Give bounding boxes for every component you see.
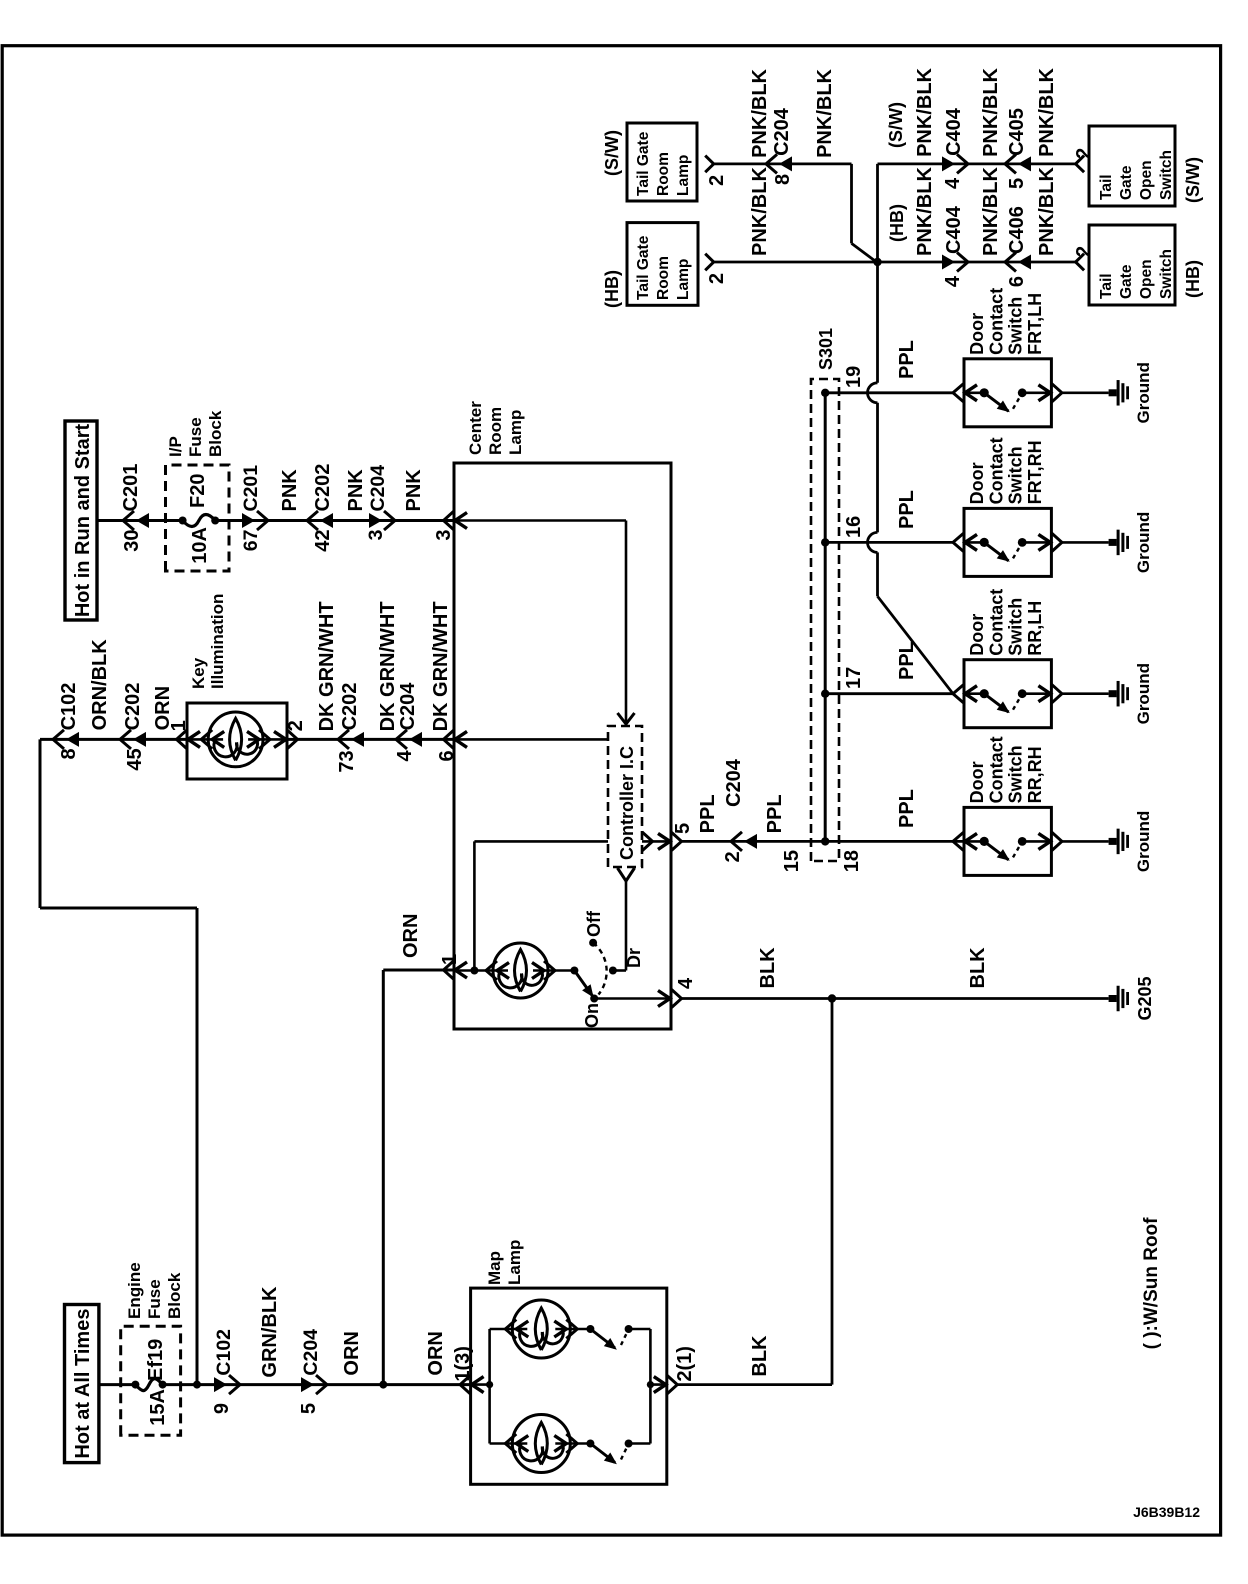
door contact switch RR,LH box: [964, 660, 1051, 728]
map lamp box: [471, 1288, 667, 1484]
ground symbol (FRT,RH): [1109, 539, 1117, 546]
svg-text:PNK/BLK: PNK/BLK: [814, 68, 836, 157]
wire: FRT,RH column: [825, 541, 953, 544]
svg-text:F20: F20: [187, 474, 209, 508]
svg-text:J6B39B12: J6B39B12: [1133, 1504, 1200, 1520]
I/P fuse block dashed box: [166, 465, 230, 571]
lamp switch lever (to On): [574, 971, 592, 996]
svg-text:Room: Room: [655, 256, 672, 300]
door contact switch RR,RH internals: [953, 832, 964, 851]
S/W open switch entry chevron: [1076, 156, 1085, 173]
svg-text:Block: Block: [206, 410, 225, 457]
svg-text:2: 2: [1073, 148, 1095, 159]
svg-text:C201: C201: [240, 465, 262, 512]
connector 4 / C404 (S/W): [957, 154, 968, 173]
svg-text:4: 4: [675, 977, 697, 989]
map lamp 1 symbol: [512, 1300, 570, 1358]
svg-text:Switch: Switch: [1006, 598, 1026, 656]
junction dot HB/trunk: [873, 258, 881, 266]
wire RR,LH switch to ground: [1062, 692, 1109, 695]
wire: S/W drop upper: [714, 163, 852, 166]
svg-text:10A: 10A: [189, 527, 211, 564]
door contact switch FRT,LH internals: [953, 383, 964, 402]
connector 30 / C201: [123, 511, 134, 530]
svg-text:30: 30: [121, 530, 143, 552]
svg-text:(S/W): (S/W): [886, 102, 906, 148]
svg-text:Door: Door: [967, 462, 987, 504]
svg-text:DK GRN/WHT: DK GRN/WHT: [316, 601, 338, 731]
wire: key illumination branch top run: [39, 739, 42, 908]
S301 dashed box: [811, 379, 839, 861]
wire: key bus below box: [287, 738, 454, 741]
map lamp 1 switch: [586, 1325, 594, 1333]
key illumination pin2 exit: [287, 730, 298, 749]
svg-text:PNK/BLK: PNK/BLK: [1036, 67, 1058, 156]
svg-text:RR,LH: RR,LH: [1025, 601, 1045, 656]
tail gate open switch (HB) box: [1089, 225, 1175, 305]
map lamp merge wire: [649, 1329, 652, 1444]
svg-text:PPL: PPL: [896, 641, 918, 680]
engine fuse block dashed box: [121, 1326, 181, 1435]
wire RR,RH switch to ground: [1062, 840, 1109, 843]
connector 42 / C202: [307, 511, 318, 530]
key illumination lamp: [187, 738, 223, 741]
wire FRT,LH switch to ground: [1062, 392, 1109, 395]
svg-text:Switch: Switch: [1006, 297, 1026, 355]
wire: pin4 BLK down to ground: [682, 997, 1109, 1000]
wire: branch drop x=676: [40, 907, 197, 910]
svg-text:FRT,LH: FRT,LH: [1025, 293, 1045, 355]
ground symbol (FRT,LH): [1109, 389, 1117, 396]
svg-text:C204: C204: [397, 682, 419, 731]
svg-text:PPL: PPL: [697, 794, 719, 833]
svg-text:PNK/BLK: PNK/BLK: [914, 67, 936, 156]
door contact switch FRT,RH internals: [953, 533, 964, 552]
S301 splice bus: [824, 393, 827, 842]
connector 9 / C102: [229, 1375, 240, 1394]
svg-text:19: 19: [843, 366, 865, 388]
svg-text:PPL: PPL: [896, 789, 918, 828]
map lamp 2 symbol: [512, 1415, 570, 1473]
svg-text:PNK/BLK: PNK/BLK: [980, 167, 1002, 256]
svg-text:5: 5: [1006, 178, 1028, 189]
wire: S/W jog to HB wire: [850, 164, 853, 244]
fuse F20 10A: [179, 517, 187, 525]
controller I.C dashed box: [608, 726, 642, 867]
svg-text:2: 2: [285, 720, 307, 731]
svg-text:18: 18: [841, 850, 863, 872]
svg-text:C204: C204: [771, 107, 793, 156]
svg-text:PNK: PNK: [345, 469, 367, 512]
pin 3 entry into Center Room Lamp: [444, 511, 455, 530]
svg-text:Off: Off: [584, 910, 604, 937]
svg-text:ORN: ORN: [400, 914, 422, 958]
wire: pin3 internal feed: [454, 519, 626, 522]
svg-text:Engine: Engine: [125, 1262, 144, 1319]
svg-text:C404: C404: [943, 107, 965, 156]
svg-text:DK GRN/WHT: DK GRN/WHT: [430, 601, 452, 731]
svg-text:PNK/BLK: PNK/BLK: [914, 167, 936, 256]
wire: ORN branch to center room lamp: [382, 970, 385, 1385]
svg-text:2: 2: [706, 273, 728, 284]
svg-text:BLK: BLK: [967, 947, 989, 989]
svg-text:C102: C102: [213, 1329, 235, 1376]
fuse Ef19 15A: [131, 1381, 139, 1389]
svg-text:4: 4: [394, 750, 416, 762]
center room lamp pin 1 entry: [444, 961, 455, 980]
svg-text:( ):W/Sun Roof: ( ):W/Sun Roof: [1141, 1217, 1162, 1350]
svg-text:9: 9: [211, 1403, 233, 1414]
connector 4 / C404 (HB): [957, 253, 968, 272]
pin 4 exit: [671, 989, 682, 1008]
tail gate open switch (S/W) box: [1089, 126, 1175, 206]
svg-text:C406: C406: [1006, 206, 1028, 254]
Off contact dot: [589, 939, 597, 947]
map lamp 1 wire: [490, 1328, 528, 1331]
svg-text:Hot in Run and Start: Hot in Run and Start: [72, 424, 94, 618]
svg-text:On: On: [582, 1003, 602, 1028]
svg-text:ORN: ORN: [341, 1331, 363, 1375]
door contact switch RR,LH internals: [953, 684, 964, 703]
power box: Hot in Run and Start: [65, 421, 97, 620]
svg-text:C201: C201: [120, 464, 142, 512]
S/W lamp pin2 chevron: [705, 156, 714, 173]
chevron at controller bottom edge (pin5): [642, 832, 653, 851]
pin 5 exit: [671, 832, 682, 851]
map lamp 2 switch: [586, 1440, 594, 1448]
svg-text:Center: Center: [466, 401, 485, 455]
connector 8 / C102: [53, 730, 64, 749]
door contact switch RR,RH box: [964, 807, 1051, 875]
svg-text:Block: Block: [165, 1272, 184, 1319]
svg-text:Open: Open: [1138, 160, 1155, 200]
svg-text:Controller I.C: Controller I.C: [617, 746, 637, 860]
svg-text:Contact: Contact: [986, 589, 1006, 656]
svg-text:Lamp: Lamp: [506, 410, 525, 455]
svg-text:Lamp: Lamp: [675, 155, 692, 196]
svg-text:67: 67: [240, 530, 262, 552]
connector 5 / C405 (S/W): [1005, 154, 1016, 173]
svg-text:Tail: Tail: [1098, 174, 1115, 200]
svg-text:DK GRN/WHT: DK GRN/WHT: [377, 601, 399, 731]
svg-text:Gate: Gate: [1118, 165, 1135, 200]
svg-text:Ef19: Ef19: [145, 1339, 167, 1381]
svg-text:Door: Door: [967, 313, 987, 355]
junction dot at bus C y=197: [193, 1381, 201, 1389]
svg-text:ORN: ORN: [425, 1331, 447, 1375]
svg-text:Switch: Switch: [1158, 150, 1175, 200]
center room lamp wire: [454, 969, 508, 972]
wire: HB drop: [714, 261, 1076, 264]
svg-text:Gate: Gate: [1118, 264, 1135, 299]
svg-text:Key: Key: [189, 657, 208, 689]
svg-text:Fuse: Fuse: [186, 417, 205, 457]
svg-text:15: 15: [781, 850, 803, 872]
svg-text:Lamp: Lamp: [675, 259, 692, 300]
svg-text:PNK: PNK: [403, 469, 425, 512]
svg-text:Contact: Contact: [986, 437, 1006, 504]
svg-text:45: 45: [124, 748, 146, 770]
door contact switch FRT,RH box: [964, 508, 1051, 576]
svg-text:Lamp: Lamp: [505, 1240, 524, 1285]
svg-text:4: 4: [942, 275, 964, 287]
svg-text:PPL: PPL: [764, 794, 786, 833]
svg-text:2: 2: [1073, 246, 1095, 257]
connector 73 / C202: [338, 730, 349, 749]
svg-text:Map: Map: [485, 1251, 504, 1285]
svg-text:Room: Room: [655, 152, 672, 196]
wire: pin4 BLK inside box: [594, 997, 671, 1000]
key illumination pin1 entry: [177, 730, 188, 749]
svg-text:PPL: PPL: [896, 490, 918, 529]
svg-text:C202: C202: [122, 683, 144, 731]
svg-text:Open: Open: [1138, 259, 1155, 299]
svg-text:Door: Door: [967, 614, 987, 656]
svg-text:Switch: Switch: [1158, 249, 1175, 299]
connector 45 / C202: [120, 730, 131, 749]
svg-text:2: 2: [722, 851, 744, 862]
svg-text:(HB): (HB): [887, 204, 907, 242]
svg-text:8: 8: [58, 748, 80, 759]
svg-text:PNK/BLK: PNK/BLK: [749, 167, 771, 256]
svg-text:5: 5: [672, 823, 694, 834]
On contact dot: [590, 995, 598, 1003]
lamp switch common dot: [570, 967, 578, 975]
svg-text:Ground: Ground: [1134, 362, 1153, 423]
svg-text:G205: G205: [1135, 976, 1155, 1020]
map lamp pin 2(1) exit: [667, 1375, 678, 1394]
wire: PPL pin5 to S301 and RR,RH switch: [682, 840, 965, 843]
svg-text:Tail: Tail: [1098, 273, 1115, 299]
connector 8 / C204 (S/W): [766, 154, 777, 173]
svg-text:BLK: BLK: [757, 947, 779, 989]
svg-text:16: 16: [843, 516, 865, 538]
wire: map lamp BLK return: [677, 1383, 832, 1386]
svg-text:4: 4: [942, 177, 964, 189]
map lamp junction dots: [486, 1381, 493, 1388]
svg-text:Ground: Ground: [1134, 811, 1153, 872]
wire: pin6 internal feed: [454, 738, 608, 741]
door contact switch FRT,LH box: [964, 359, 1051, 427]
wire: S/W drop lower: [878, 163, 1076, 166]
svg-text:Tail Gate: Tail Gate: [635, 131, 652, 196]
svg-text:PNK/BLK: PNK/BLK: [980, 67, 1002, 156]
svg-text:Hot at All Times: Hot at All Times: [72, 1309, 94, 1459]
S301 dots: [821, 837, 829, 845]
wire FRT,RH switch to ground: [1062, 541, 1109, 544]
svg-text:C404: C404: [943, 205, 965, 254]
svg-text:3: 3: [433, 530, 455, 541]
ground G205 symbol: [1109, 995, 1117, 1002]
wire: RR,LH column: [825, 692, 953, 695]
svg-text:PNK/BLK: PNK/BLK: [749, 68, 771, 157]
tail gate room lamp (HB) box: [627, 223, 698, 306]
svg-text:C405: C405: [1006, 108, 1028, 156]
svg-text:Tail Gate: Tail Gate: [635, 235, 652, 300]
ground symbol (RR,LH): [1109, 690, 1117, 697]
svg-text:2: 2: [706, 175, 728, 186]
svg-text:BLK: BLK: [749, 1335, 771, 1377]
svg-text:FRT,RH: FRT,RH: [1025, 440, 1045, 504]
wire: trunk horizontal: [876, 552, 879, 596]
svg-text:C204: C204: [300, 1329, 322, 1376]
svg-text:(S/W): (S/W): [602, 130, 622, 176]
connector 4 / C204 (key bus): [396, 730, 407, 749]
HB open switch entry chevron: [1076, 254, 1085, 271]
svg-text:Ground: Ground: [1134, 663, 1153, 724]
svg-text:3: 3: [365, 529, 387, 540]
HB lamp pin2 chevron: [705, 254, 714, 271]
connector 5 / C204: [316, 1375, 327, 1394]
junction dot BLK: [828, 994, 836, 1002]
svg-text:I/P: I/P: [166, 436, 185, 457]
wire: Hot at All Times bus: [99, 1383, 135, 1386]
svg-text:S301: S301: [816, 328, 836, 370]
junction dot lamp feed: [470, 967, 478, 975]
map lamp pin 1(3) entry: [460, 1375, 471, 1394]
svg-text:1: 1: [439, 954, 461, 965]
chevron at controller left edge: [618, 868, 635, 881]
center room lamp box: [454, 463, 671, 1029]
connector 3 / C204: [384, 511, 395, 530]
svg-text:Illumination: Illumination: [208, 594, 227, 689]
svg-text:GRN/BLK: GRN/BLK: [259, 1286, 281, 1378]
svg-text:Door: Door: [967, 761, 987, 803]
svg-text:RR,RH: RR,RH: [1025, 746, 1045, 803]
wire: controller to lamp link: [474, 840, 608, 843]
svg-text:PNK: PNK: [279, 469, 301, 512]
svg-text:(HB): (HB): [1183, 260, 1203, 298]
svg-text:ORN/BLK: ORN/BLK: [89, 639, 111, 731]
svg-text:C202: C202: [312, 464, 334, 512]
connector 6 / C406 (HB): [1005, 253, 1016, 272]
ground symbol (RR,RH): [1109, 838, 1117, 845]
dashed throw arc Off-Dr-On: [593, 943, 607, 995]
svg-text:6: 6: [1006, 276, 1028, 287]
svg-text:2(1): 2(1): [674, 1346, 696, 1382]
svg-text:C204: C204: [367, 465, 389, 512]
map lamp 2 wire: [490, 1442, 528, 1445]
svg-text:C202: C202: [339, 683, 361, 731]
svg-text:Room: Room: [486, 407, 505, 455]
svg-text:73: 73: [336, 750, 358, 772]
svg-text:Contact: Contact: [986, 288, 1006, 355]
wire: tap from Hot at All Times bus y=197: [196, 908, 199, 1385]
svg-text:5: 5: [298, 1403, 320, 1414]
junction dot ORN branch: [379, 1381, 387, 1389]
wire: trunk diagonal to RR,LH: [878, 596, 954, 693]
connector 67 / C201: [257, 511, 268, 530]
svg-text:(HB): (HB): [602, 270, 622, 308]
key illumination box: [187, 703, 287, 779]
svg-text:42: 42: [312, 530, 334, 552]
svg-text:8: 8: [772, 174, 794, 185]
svg-text:(S/W): (S/W): [1183, 157, 1203, 203]
svg-text:17: 17: [843, 667, 865, 689]
svg-text:Contact: Contact: [986, 736, 1006, 803]
pin 6 entry into Center Room Lamp: [444, 730, 455, 749]
svg-text:PPL: PPL: [896, 340, 918, 379]
svg-text:15A: 15A: [147, 1389, 169, 1426]
svg-text:C102: C102: [58, 683, 80, 731]
wire: Hot in Run and Start bus (vertical): [97, 519, 183, 522]
wire: FRT,LH column: [825, 391, 953, 394]
svg-text:PNK/BLK: PNK/BLK: [1036, 167, 1058, 256]
svg-text:Switch: Switch: [1006, 446, 1026, 504]
tail gate room lamp (S/W) box: [627, 123, 697, 201]
wire: pin5 PPL from controller: [642, 840, 671, 843]
svg-text:Fuse: Fuse: [145, 1279, 164, 1319]
wire: Dr to controller: [613, 969, 626, 972]
svg-text:C204: C204: [723, 758, 745, 807]
svg-text:Switch: Switch: [1006, 745, 1026, 803]
Dr contact dot: [609, 967, 617, 975]
chevron at controller right edge: [618, 713, 635, 724]
center room lamp symbol: [493, 943, 548, 998]
svg-text:Ground: Ground: [1134, 512, 1153, 573]
connector 2 / C204 (PPL): [731, 832, 742, 851]
map lamp split wire: [471, 1383, 490, 1386]
power box: Hot at All Times: [65, 1305, 99, 1463]
